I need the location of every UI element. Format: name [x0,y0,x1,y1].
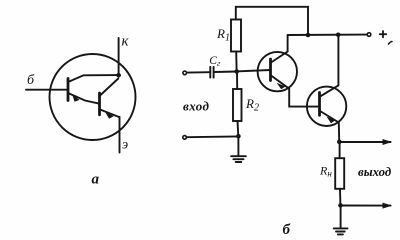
wire: Rn bottom to lower output node [339,189,341,206]
wire: Q1 collector [68,75,118,82]
envelope circle of composite transistor (fig a) [50,54,136,140]
junction dot: input ground node [236,134,241,139]
wire: Q3 emitter [271,76,289,89]
Q3 emitter arrow [277,83,286,90]
wire: output arrow top [339,141,390,143]
svg-text:б: б [283,222,291,238]
svg-text:к: к [122,34,130,50]
wire: Q4 collector to rail [320,35,338,97]
junction dot: rail/R1 [306,33,311,38]
svg-text:R1: R1 [216,26,230,44]
transistor Q2 base bar [98,93,101,115]
arrowhead: output top [383,139,393,145]
resistor R2 [233,89,242,121]
transistor Q4 envelope [307,87,346,126]
label + [380,31,386,37]
wire: bottom input terminal to ground node [187,135,238,138]
wire: output arrow bottom [341,205,391,207]
wire: ground node to ground symbol [237,136,239,156]
wire: R1 top to plus rail [236,7,308,34]
wire: R1 bottom to base node [235,52,237,71]
resistor R1 [231,20,241,52]
wire: Q1 emitter [68,93,99,104]
capacitor C1 plate 2 [213,67,215,78]
wire: emitter to terminal e [119,117,121,153]
tick mark after plus [389,42,393,45]
arrowhead: output bottom [383,203,393,209]
junction dot: collectors [116,73,121,78]
junction dot: base node [234,69,239,74]
wire: Q3 emitter to Q4 base [289,89,319,107]
svg-text:вход: вход [183,99,210,114]
wire: lower output node to ground [340,206,342,229]
wire: Q2 emitter [100,110,119,118]
wire: terminal b lead [26,89,68,91]
svg-text:выход: выход [358,165,392,179]
ground symbol (output side) [334,228,348,234]
wire: plus rail [288,34,367,36]
junction dot: output node [337,140,342,145]
input terminal bottom (open circle) [183,136,187,140]
svg-text:Сг: Сг [209,55,221,68]
Q4 base bar [318,93,321,116]
svg-text:Rн: Rн [319,164,332,179]
svg-text:а: а [92,172,100,188]
wire: C1 to base node [215,71,237,74]
wire: Q3 collector to rail [271,35,288,63]
input terminal top (open circle) [183,71,187,75]
wire: base node to Q3 base [239,70,270,71]
resistor Rn [335,158,344,189]
wire: Q2 collector [100,79,118,96]
wire: R2 bottom to ground node [237,121,240,136]
wire: collector node to terminal k [118,38,120,76]
svg-text:R2: R2 [245,96,259,114]
wire: base node to R2 top [236,72,238,90]
junction dot: Q4 collector at rail [336,33,341,38]
capacitor C1 plate 1 [209,67,211,78]
transistor Q3 envelope [258,52,297,91]
wire: Q4 emitter to output node [320,111,339,142]
Q3 base bar [269,59,272,81]
wire: output node to Rn [339,142,341,158]
ground symbol (input side) [231,156,246,162]
transistor Q1 base bar [67,79,70,101]
svg-text:б: б [27,73,35,88]
wire: input terminal to C1 [188,71,210,73]
Q2 emitter arrow [105,112,114,119]
junction dot: lower output node [338,203,343,208]
power terminal plus (open circle) [367,33,371,37]
svg-text:э: э [122,138,128,153]
Q4 emitter arrow [327,117,336,124]
Q1 emitter arrow [72,95,79,102]
